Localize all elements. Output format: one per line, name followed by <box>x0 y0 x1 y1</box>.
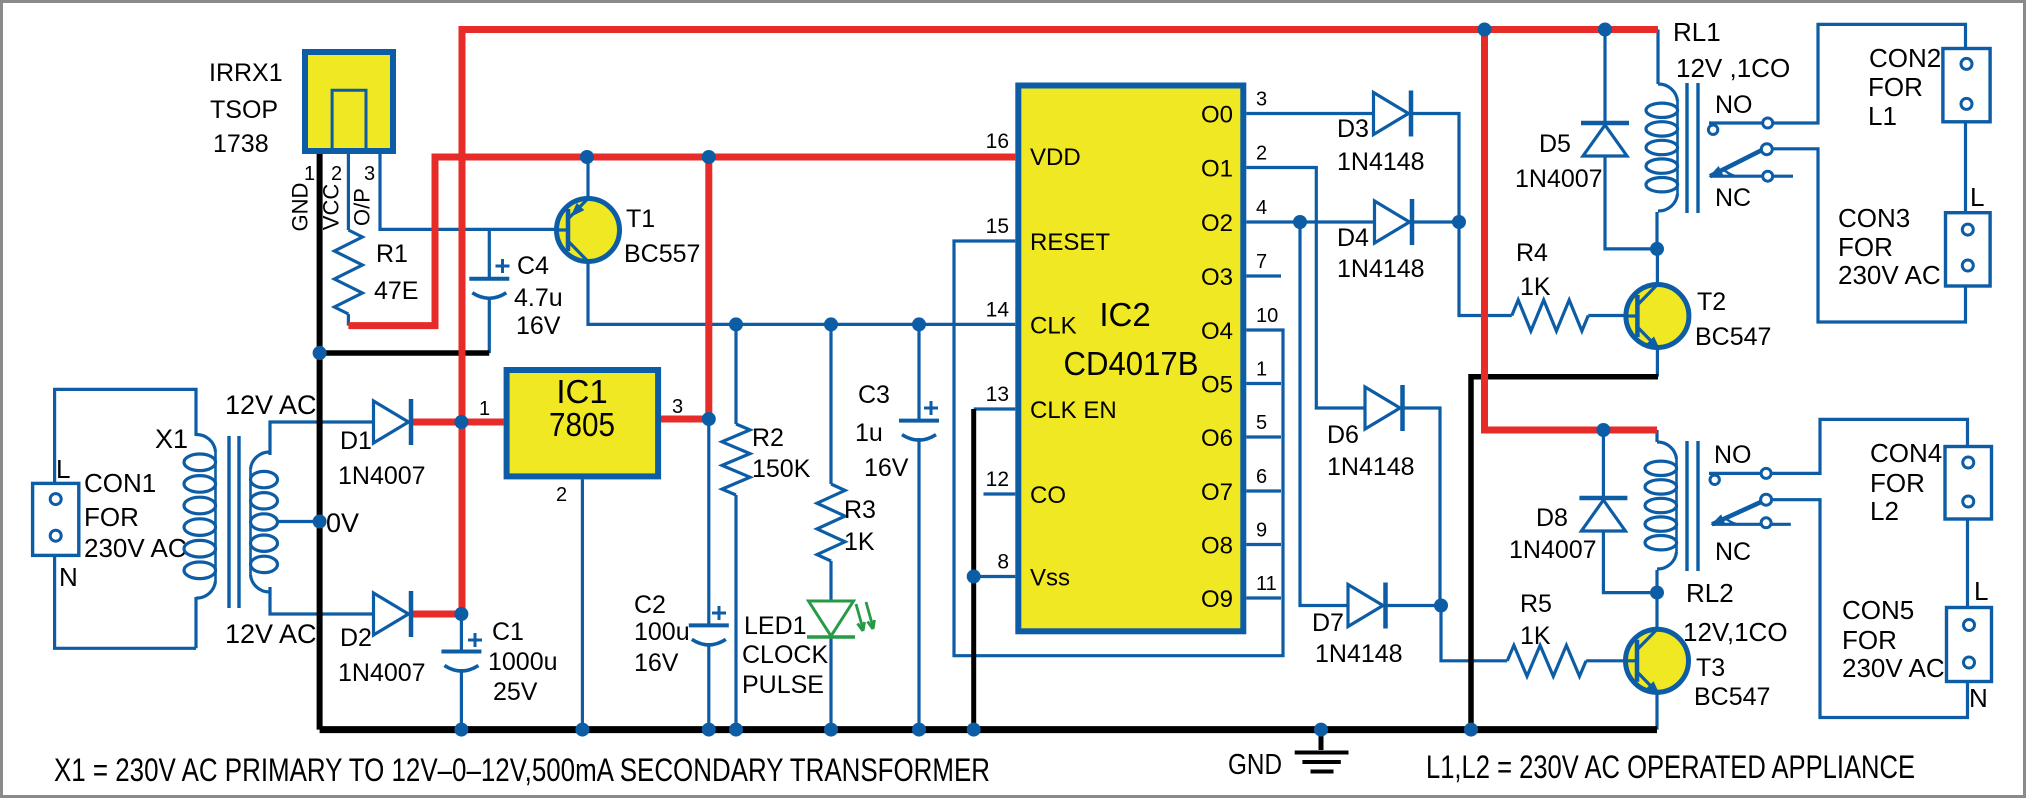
connector CON5 <box>1947 608 1992 682</box>
wire D5 top lead from 12V bus <box>1603 30 1606 122</box>
svg-text:CD4017B: CD4017B <box>1064 345 1199 382</box>
stub IC2 O9 pin11 <box>1246 596 1281 599</box>
svg-text:100u: 100u <box>634 618 690 646</box>
svg-text:X1: X1 <box>155 424 188 454</box>
relay RL2 NC line <box>1712 523 1791 526</box>
svg-text:3: 3 <box>364 163 375 185</box>
svg-text:T2: T2 <box>1697 288 1726 316</box>
svg-text:O1: O1 <box>1201 156 1233 183</box>
red 5V rail to IC2 VDD pin16 <box>348 157 1015 326</box>
LED1 clock pulse indicator <box>809 601 854 636</box>
stub IC2 O3 pin7 <box>1246 274 1281 277</box>
wire C2 leads from 5V node <box>707 419 710 730</box>
diode D1 1N4007 <box>374 401 409 443</box>
wire IC2 O2 pin4 to D4 <box>1246 220 1374 223</box>
svg-text:N: N <box>59 562 78 592</box>
svg-text:BC547: BC547 <box>1695 323 1771 351</box>
svg-text:TSOP: TSOP <box>210 96 278 124</box>
diode D3 1N4148 <box>1374 93 1409 135</box>
relay RL2 pole arm <box>1712 502 1761 524</box>
svg-text:1N4148: 1N4148 <box>1315 640 1403 668</box>
resistor R4 1K <box>1512 300 1589 331</box>
diode D7 1N4148 <box>1348 585 1383 627</box>
voltage regulator IC1 7805 <box>507 370 658 476</box>
svg-text:12: 12 <box>986 468 1009 491</box>
connector CON4 <box>1945 447 1992 520</box>
wire D8 top lead <box>1602 430 1605 496</box>
svg-text:15: 15 <box>986 215 1009 238</box>
svg-text:L: L <box>1974 576 1988 606</box>
svg-text:O3: O3 <box>1201 264 1233 291</box>
svg-text:RESET: RESET <box>1030 229 1110 256</box>
wire T3 collector <box>1655 593 1658 629</box>
svg-text:O9: O9 <box>1201 586 1233 613</box>
svg-text:1: 1 <box>304 163 315 185</box>
svg-text:C3: C3 <box>858 381 890 409</box>
wire R2 leads <box>734 324 737 729</box>
stub IC2 O7 pin6 <box>1246 489 1281 492</box>
svg-text:D6: D6 <box>1327 421 1359 449</box>
wire T2 emitter lead <box>1656 348 1659 377</box>
red riser rectifier output <box>459 26 466 614</box>
svg-text:230V AC: 230V AC <box>1838 260 1941 290</box>
wire R5 to T3 base <box>1586 659 1637 662</box>
svg-text:CLOCK: CLOCK <box>742 641 828 669</box>
svg-text:O/P: O/P <box>350 188 375 226</box>
wire RL1 coil bottom to node <box>1655 212 1658 249</box>
capacitor C3 <box>899 419 939 423</box>
red wire D2 cathode to reservoir node <box>411 611 461 618</box>
red wire D1 cathode to IC1 pin1 <box>411 419 504 426</box>
svg-text:L: L <box>56 454 70 484</box>
junction dots <box>313 346 327 360</box>
wire C4 top lead <box>488 229 491 278</box>
wire T3 emitter to ground bus <box>1655 692 1658 730</box>
svg-text:R5: R5 <box>1520 590 1552 618</box>
svg-text:FOR: FOR <box>1838 232 1893 262</box>
relay RL2 NO contact circle <box>1710 475 1719 484</box>
svg-text:12V ,1CO: 12V ,1CO <box>1676 53 1790 83</box>
wire RL2 NO contact to CON4 <box>1709 419 1968 473</box>
relay RL2 pole circle <box>1761 494 1772 505</box>
svg-text:1N4007: 1N4007 <box>1515 165 1603 193</box>
wire secondary top to D1 (12V AC) <box>270 422 374 455</box>
ground bus <box>320 726 1657 733</box>
relay RL1 coil <box>1658 84 1678 101</box>
wire IC2 RESET pin15 to O4 pin10 wrap-around <box>954 241 1283 656</box>
relay RL1 pole arm <box>1710 150 1762 176</box>
svg-text:D4: D4 <box>1337 224 1369 252</box>
relay RL1 NO line circle <box>1763 118 1773 128</box>
wire 0V centre tap to ground line <box>277 520 320 523</box>
svg-text:12V AC: 12V AC <box>225 390 317 420</box>
svg-text:LED1: LED1 <box>744 612 807 640</box>
wire C4 bottom lead to ground <box>488 298 491 353</box>
connector CON3 <box>1946 213 1991 286</box>
svg-text:16V: 16V <box>864 454 909 482</box>
relay RL1 pole circle <box>1761 144 1772 155</box>
svg-text:O8: O8 <box>1201 533 1233 560</box>
wire R1 bottom lead <box>347 314 350 326</box>
wire D6 cathode down to D7 junction <box>1404 408 1441 606</box>
svg-text:1N4148: 1N4148 <box>1337 148 1425 176</box>
svg-text:BC557: BC557 <box>624 240 700 268</box>
wire RL2 pole to CON5 <box>1771 500 1968 718</box>
svg-text:BC547: BC547 <box>1694 683 1770 711</box>
svg-text:C4: C4 <box>517 252 549 280</box>
svg-text:1N4007: 1N4007 <box>338 659 426 687</box>
svg-text:Vss: Vss <box>1030 565 1070 592</box>
wire CON1 to transformer primary top <box>55 389 196 484</box>
diode D2 1N4007 <box>374 593 409 635</box>
svg-text:VDD: VDD <box>1030 144 1081 171</box>
svg-text:L: L <box>1970 182 1984 212</box>
red 12V branch to RL2 <box>1485 30 1658 431</box>
wire C1 leads <box>460 614 463 730</box>
wire O2 node down to D7 <box>1300 222 1348 606</box>
svg-text:1K: 1K <box>844 528 875 556</box>
svg-text:3: 3 <box>1256 89 1267 111</box>
wire IC2 Vss pin8 stub <box>974 575 1016 578</box>
svg-text:VCC: VCC <box>319 184 344 231</box>
svg-text:4.7u: 4.7u <box>514 284 563 312</box>
wire D3/D4 junction down to R4 <box>1459 222 1512 316</box>
resistor R3 <box>817 484 845 561</box>
wire IC2 O1 pin2 to D6 <box>1246 168 1365 409</box>
stub IC2 O5 pin1 <box>1246 382 1281 385</box>
svg-text:1u: 1u <box>855 419 883 447</box>
wire R1 top lead from IRRX1 pin2 <box>347 152 350 230</box>
svg-text:D8: D8 <box>1536 504 1568 532</box>
svg-text:NO: NO <box>1715 91 1753 119</box>
svg-text:D5: D5 <box>1539 130 1571 158</box>
relay RL1 NO contact circle <box>1708 125 1717 134</box>
svg-text:16V: 16V <box>634 649 679 677</box>
svg-text:1K: 1K <box>1520 273 1551 301</box>
svg-text:1N4148: 1N4148 <box>1327 453 1415 481</box>
svg-text:R2: R2 <box>752 424 784 452</box>
svg-text:13: 13 <box>986 383 1009 406</box>
svg-text:230V AC: 230V AC <box>84 533 187 563</box>
svg-text:GND: GND <box>1228 749 1282 781</box>
relay RL2 NC circle <box>1761 518 1771 528</box>
svg-text:14: 14 <box>986 298 1010 321</box>
connector CON2 <box>1943 49 1990 122</box>
svg-text:C2: C2 <box>634 591 666 619</box>
svg-text:NC: NC <box>1715 184 1751 212</box>
wire 12V to RL2 coil drop <box>1655 430 1658 442</box>
wire IC2 CO pin12 stub <box>984 492 1016 495</box>
wire D8 bottom lead to relay node <box>1603 529 1657 592</box>
diode D8 1N4007 <box>1581 500 1625 531</box>
stub IC2 O8 pin9 <box>1246 543 1281 546</box>
svg-text:FOR: FOR <box>84 502 139 532</box>
wire T1 collector to IC2 CLK pin 14 <box>588 262 1015 324</box>
transistor T2 BC547 <box>1626 285 1689 348</box>
svg-text:NO: NO <box>1714 441 1752 469</box>
capacitor C1 <box>441 650 481 654</box>
svg-text:CON3: CON3 <box>1838 203 1910 233</box>
wire T2 emitter to ground bus <box>1471 377 1658 730</box>
wire D5 bottom lead to relay node <box>1605 154 1657 249</box>
resistor R1 <box>334 230 362 314</box>
svg-text:D2: D2 <box>340 624 372 652</box>
svg-text:12V AC: 12V AC <box>225 619 317 649</box>
svg-text:FOR: FOR <box>1842 625 1897 655</box>
svg-text:25V: 25V <box>493 678 538 706</box>
svg-text:10: 10 <box>1256 305 1278 327</box>
svg-text:16: 16 <box>986 130 1009 153</box>
IR receiver IRRX1 TSOP1738 <box>305 52 393 151</box>
wire R3 top lead <box>829 324 832 484</box>
relay RL1 NC circle <box>1763 171 1773 181</box>
svg-text:D7: D7 <box>1312 609 1344 637</box>
svg-text:PULSE: PULSE <box>742 671 824 699</box>
transformer X1 core <box>229 436 239 608</box>
svg-text:47E: 47E <box>374 277 418 305</box>
wire R4 to T2 base <box>1588 314 1637 317</box>
svg-text:IC1: IC1 <box>556 373 607 410</box>
svg-text:O2: O2 <box>1201 210 1233 237</box>
svg-text:5: 5 <box>1256 412 1267 434</box>
svg-text:GND: GND <box>288 183 313 232</box>
wire IC2 CLK EN to ground <box>971 409 976 730</box>
svg-text:6: 6 <box>1256 466 1267 488</box>
svg-text:1: 1 <box>1256 359 1267 381</box>
transistor T3 BC547 <box>1626 629 1689 692</box>
svg-text:X1 = 230V AC PRIMARY TO 12V–0–: X1 = 230V AC PRIMARY TO 12V–0–12V,500mA … <box>54 752 990 788</box>
svg-text:L1,L2 = 230V AC OPERATED APPLI: L1,L2 = 230V AC OPERATED APPLIANCE <box>1426 749 1915 785</box>
wire D6/D7 junction down to R5 <box>1441 606 1507 661</box>
svg-text:12V,1CO: 12V,1CO <box>1683 617 1788 647</box>
svg-text:O5: O5 <box>1201 372 1233 399</box>
svg-text:7805: 7805 <box>549 406 615 443</box>
wire IC2 O0 pin3 to D3 <box>1246 112 1373 115</box>
wire link CON2 to CON3 <box>1964 121 1967 213</box>
svg-text:1K: 1K <box>1520 622 1551 650</box>
svg-text:N: N <box>1969 683 1988 713</box>
wire RL2 coil bottom to node <box>1655 570 1658 593</box>
wire IRRX1 pin3 O/P to T1 base <box>380 152 568 229</box>
svg-text:1738: 1738 <box>213 130 269 158</box>
svg-text:R4: R4 <box>1516 239 1548 267</box>
wire LED1 cathode to ground bus <box>829 637 832 730</box>
svg-text:D3: D3 <box>1337 115 1369 143</box>
svg-text:T3: T3 <box>1696 654 1725 682</box>
svg-text:4: 4 <box>1256 197 1267 219</box>
diode D4 1N4148 <box>1375 201 1410 243</box>
svg-text:CLK EN: CLK EN <box>1030 397 1117 424</box>
relay RL2 NO line circle <box>1761 468 1771 478</box>
resistor R2 <box>722 424 750 495</box>
wire T1 emitter to 5V rail <box>586 157 589 199</box>
svg-text:7: 7 <box>1256 251 1267 273</box>
svg-text:9: 9 <box>1256 520 1267 542</box>
wire link CON4 to CON5 <box>1966 518 1969 609</box>
svg-text:CON5: CON5 <box>1842 595 1914 625</box>
red wire IC1 pin3 output riser <box>659 157 709 419</box>
svg-text:0V: 0V <box>326 508 359 538</box>
svg-text:16V: 16V <box>516 312 561 340</box>
svg-text:2: 2 <box>331 163 342 185</box>
relay RL1 core <box>1687 83 1698 213</box>
diode D6 1N4148 <box>1365 387 1400 429</box>
svg-text:O7: O7 <box>1201 479 1233 506</box>
wire IC1 pin2 to ground bus <box>581 479 584 729</box>
svg-text:CLK: CLK <box>1030 312 1077 339</box>
red 12V rail from rectifier to relays <box>462 26 1658 33</box>
svg-text:RL1: RL1 <box>1673 17 1721 47</box>
wire C3 leads <box>917 324 920 729</box>
capacitor C4 <box>469 277 509 281</box>
svg-text:O0: O0 <box>1201 102 1233 129</box>
relay RL2 coil <box>1657 442 1677 459</box>
connector CON1 <box>33 483 79 555</box>
svg-text:R3: R3 <box>844 496 876 524</box>
wire RL1 pole to CON3 <box>1771 149 1966 322</box>
resistor R5 1K <box>1507 645 1586 676</box>
svg-text:O4: O4 <box>1201 318 1233 345</box>
svg-text:L1: L1 <box>1868 101 1897 131</box>
svg-text:1: 1 <box>479 398 490 420</box>
svg-text:IRRX1: IRRX1 <box>209 59 283 87</box>
wire D7 cathode to junction <box>1387 604 1442 607</box>
svg-text:CON2: CON2 <box>1869 43 1941 73</box>
svg-text:CO: CO <box>1030 482 1066 509</box>
decade counter IC2 CD4017B <box>1018 86 1243 632</box>
svg-text:L2: L2 <box>1870 496 1899 526</box>
svg-text:IC2: IC2 <box>1099 296 1150 333</box>
svg-text:3: 3 <box>672 396 683 418</box>
wire R3 to LED1 <box>829 561 832 601</box>
relay RL2 core <box>1687 441 1698 571</box>
svg-text:C1: C1 <box>492 618 524 646</box>
svg-text:FOR: FOR <box>1870 468 1925 498</box>
svg-text:150K: 150K <box>752 455 811 483</box>
svg-text:T1: T1 <box>626 205 655 233</box>
transistor T1 BC557 <box>557 199 620 262</box>
wire secondary bottom to D2 (12V AC) <box>270 587 374 614</box>
wire T2 collector <box>1656 249 1659 284</box>
svg-text:R1: R1 <box>376 240 408 268</box>
svg-text:11: 11 <box>1256 573 1277 595</box>
relay RL1 NC line <box>1710 175 1793 178</box>
wire RL1 NO contact to CON2 <box>1709 24 1966 123</box>
transformer X1 secondary winding <box>251 452 271 469</box>
svg-text:CON1: CON1 <box>84 468 156 498</box>
capacitor C2 <box>689 623 729 627</box>
svg-text:NC: NC <box>1715 538 1751 566</box>
ground symbol <box>1319 730 1324 750</box>
svg-text:O6: O6 <box>1201 425 1233 452</box>
svg-text:1N4007: 1N4007 <box>338 462 426 490</box>
svg-text:D1: D1 <box>340 427 372 455</box>
wire CON1 to transformer primary bottom <box>55 555 196 648</box>
diode D5 1N4007 <box>1583 125 1627 156</box>
svg-text:1000u: 1000u <box>488 648 558 676</box>
svg-text:FOR: FOR <box>1868 72 1923 102</box>
wire IRRX1 pin1 GND down to ground bus <box>317 150 323 730</box>
svg-text:2: 2 <box>1256 143 1267 165</box>
wire D3 cathode to D4 junction <box>1412 114 1459 223</box>
wire IC2 CLK EN pin13 stub <box>974 407 1016 410</box>
svg-text:RL2: RL2 <box>1686 578 1734 608</box>
wire D4 cathode to junction <box>1413 220 1459 223</box>
transformer X1 primary winding <box>196 434 216 451</box>
svg-text:8: 8 <box>997 551 1009 574</box>
wire 12V bus drop to RL1 coil <box>1656 30 1659 85</box>
stub IC2 O6 pin5 <box>1246 435 1281 438</box>
svg-text:1N4148: 1N4148 <box>1337 255 1425 283</box>
svg-text:230V AC: 230V AC <box>1842 653 1945 683</box>
svg-text:1N4007: 1N4007 <box>1509 536 1597 564</box>
wire C4 ground return <box>320 350 490 356</box>
svg-text:2: 2 <box>556 484 567 506</box>
svg-text:CON4: CON4 <box>1870 438 1942 468</box>
